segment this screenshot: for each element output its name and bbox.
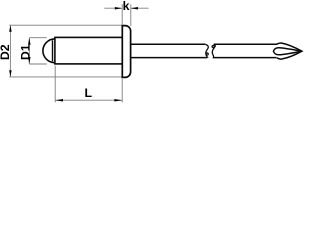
mandrel head dome [43,39,55,63]
wire mandrel stem bottom right segment [213,57,277,59]
svg-text:k: k [123,0,130,13]
node D2 top arrow [9,25,12,32]
wire mandrel stem bottom left segment [131,57,208,59]
svg-text:L: L [84,86,92,100]
wire k right extension line [130,4,132,26]
wire D1 bottom extension line [29,63,47,65]
wire D2 top extension line [9,24,121,26]
wire k left dimension line [104,7,122,9]
node break mark left squiggle [205,44,208,57]
wire mandrel stem top right segment [214,43,277,45]
wire D2 dimension line [9,25,11,77]
wire k right dimension line [131,7,149,9]
node k right arrow [131,7,138,10]
mandrel tip inner cone curves [273,48,302,55]
wire D1 top extension line [29,37,47,39]
rivet body (cylinder outline) [55,37,122,64]
node D2 bottom arrow [9,70,12,77]
wire k left extension line [121,4,123,24]
wire L left extension line [54,66,56,103]
node L right arrow [114,99,122,102]
node break mark right squiggle [212,44,215,57]
mandrel head chord line [52,40,54,61]
wire L dimension line [55,99,122,101]
svg-text:D2: D2 [0,44,12,60]
wire mandrel stem top left segment [131,43,206,45]
svg-text:D1: D1 [18,44,32,60]
node D1 top arrow [28,38,31,45]
mandrel tip outline [277,43,302,59]
wire L right extension line [121,79,123,103]
node k left arrow [115,7,122,10]
flange (rivet head) [122,26,130,78]
node L left arrow [55,99,63,102]
wire D1 dimension line [28,38,30,64]
node D1 bottom arrow [28,57,31,64]
wire D2 bottom extension line [9,76,121,78]
